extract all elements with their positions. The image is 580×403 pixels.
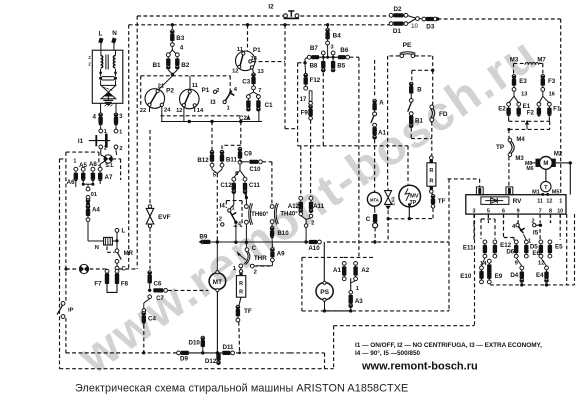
- svg-text:D3: D3: [426, 23, 435, 30]
- svg-text:C10: C10: [249, 167, 261, 173]
- svg-text:PS: PS: [320, 289, 329, 296]
- svg-text:8: 8: [549, 208, 552, 214]
- svg-text:E11: E11: [463, 244, 474, 251]
- svg-text:EVF: EVF: [158, 214, 171, 221]
- svg-text:2: 2: [88, 61, 91, 66]
- svg-text:4: 4: [92, 113, 96, 120]
- svg-text:B4: B4: [333, 32, 342, 39]
- svg-text:2: 2: [104, 146, 107, 152]
- svg-text:I3: I3: [210, 99, 216, 106]
- svg-text:F1: F1: [553, 106, 561, 113]
- svg-text:TH60°: TH60°: [251, 211, 269, 218]
- svg-text:2: 2: [219, 216, 222, 222]
- svg-text:P2: P2: [166, 88, 174, 95]
- svg-text:TF: TF: [438, 198, 446, 205]
- svg-text:Электрическая схема стиральной: Электрическая схема стиральной машины AR…: [75, 383, 408, 395]
- svg-text:C4: C4: [148, 316, 156, 323]
- svg-text:3: 3: [330, 45, 334, 51]
- svg-text:A: A: [379, 100, 384, 107]
- svg-text:A4: A4: [92, 207, 100, 214]
- svg-text:13: 13: [521, 91, 527, 97]
- svg-text:C9: C9: [244, 151, 252, 158]
- svg-text:C1: C1: [265, 102, 273, 109]
- svg-text:10: 10: [411, 24, 418, 30]
- svg-text:M4: M4: [516, 137, 525, 143]
- svg-text:C2: C2: [239, 115, 247, 122]
- svg-text:4: 4: [512, 224, 516, 230]
- svg-text:RV: RV: [513, 198, 522, 205]
- svg-text:M3: M3: [515, 156, 524, 162]
- svg-text:EVA: EVA: [391, 196, 396, 206]
- svg-text:5: 5: [213, 172, 217, 178]
- svg-text:T: T: [544, 185, 548, 191]
- svg-text:A7: A7: [105, 174, 113, 181]
- svg-text:C3: C3: [242, 79, 250, 86]
- svg-text:F7: F7: [94, 280, 102, 287]
- svg-text:F3: F3: [548, 78, 556, 85]
- svg-text:D12: D12: [205, 358, 217, 365]
- svg-text:2: 2: [88, 55, 91, 60]
- svg-text:4: 4: [180, 45, 184, 51]
- svg-text:MV: MV: [410, 194, 419, 200]
- svg-text:R: R: [239, 290, 243, 296]
- svg-text:F8: F8: [121, 280, 129, 287]
- svg-text:10: 10: [557, 208, 563, 214]
- svg-text:M2: M2: [554, 152, 563, 158]
- svg-text:A6: A6: [67, 179, 75, 186]
- svg-text:I1: I1: [78, 138, 84, 145]
- svg-text:D4: D4: [510, 272, 518, 279]
- svg-text:M6: M6: [526, 166, 533, 172]
- svg-text:2: 2: [119, 146, 122, 152]
- svg-text:M: M: [543, 161, 548, 167]
- svg-text:12: 12: [546, 199, 552, 205]
- svg-text:F9: F9: [301, 110, 309, 117]
- svg-text:N: N: [112, 30, 117, 37]
- svg-text:A9: A9: [277, 251, 285, 258]
- svg-text:A1: A1: [378, 129, 386, 136]
- svg-text:R: R: [239, 281, 243, 287]
- svg-text:3: 3: [119, 113, 123, 120]
- svg-text:R: R: [429, 168, 433, 174]
- svg-text:A10: A10: [308, 245, 320, 252]
- svg-text:1: 1: [559, 198, 562, 204]
- svg-text:12: 12: [176, 108, 182, 114]
- svg-text:13: 13: [257, 69, 263, 75]
- svg-text:9: 9: [515, 261, 519, 267]
- svg-text:2: 2: [254, 270, 257, 276]
- svg-text:TF: TF: [244, 308, 252, 315]
- svg-text:16: 16: [549, 91, 555, 97]
- svg-text:3: 3: [473, 208, 476, 214]
- svg-text:E5: E5: [555, 244, 563, 251]
- svg-text:24: 24: [164, 107, 171, 113]
- svg-text:A1: A1: [333, 267, 341, 274]
- svg-text:M3: M3: [510, 58, 519, 64]
- svg-text:B3: B3: [176, 35, 185, 42]
- svg-text:IP: IP: [68, 308, 74, 314]
- svg-text:7: 7: [258, 88, 261, 94]
- svg-text:L: L: [99, 30, 103, 37]
- svg-text:M7: M7: [537, 58, 546, 64]
- svg-text:www.remont-bosch.ru: www.remont-bosch.ru: [361, 361, 478, 373]
- svg-text:I5: I5: [533, 230, 539, 237]
- svg-text:6: 6: [502, 208, 505, 214]
- svg-text:D6: D6: [506, 248, 514, 255]
- svg-text:D2: D2: [393, 6, 402, 13]
- svg-text:14: 14: [197, 108, 204, 114]
- svg-text:M1: M1: [532, 189, 540, 195]
- svg-text:B8: B8: [309, 63, 317, 70]
- svg-text:C7: C7: [156, 296, 164, 302]
- svg-text:A3: A3: [355, 298, 363, 305]
- svg-text:TP: TP: [496, 144, 504, 151]
- svg-text:12: 12: [232, 68, 238, 74]
- svg-text:9: 9: [517, 208, 520, 214]
- svg-text:B2: B2: [181, 62, 190, 69]
- svg-text:D1: D1: [393, 28, 402, 35]
- svg-text:E9: E9: [495, 273, 503, 280]
- svg-text:C: C: [366, 216, 371, 223]
- svg-text:17: 17: [300, 97, 307, 103]
- svg-text:I1 — ON/OFF, I2 — NO CENTRIFUG: I1 — ON/OFF, I2 — NO CENTRIFUGA, I3 — EX…: [355, 342, 542, 349]
- svg-text:01: 01: [91, 192, 98, 198]
- svg-text:A11: A11: [313, 203, 325, 210]
- svg-text:THR: THR: [254, 255, 267, 262]
- svg-text:C6: C6: [154, 280, 162, 287]
- svg-text:TH40°: TH40°: [280, 210, 298, 217]
- svg-text:1: 1: [119, 130, 122, 136]
- svg-text:22: 22: [140, 108, 146, 114]
- svg-text:L: L: [121, 229, 125, 235]
- svg-text:2: 2: [311, 220, 314, 226]
- svg-text:B7: B7: [310, 45, 319, 52]
- svg-text:I4 — 90°, I5 —500/850: I4 — 90°, I5 —500/850: [355, 349, 421, 357]
- svg-text:P1: P1: [253, 47, 261, 54]
- svg-text:I4: I4: [220, 203, 226, 210]
- svg-text:A2: A2: [361, 267, 369, 274]
- svg-text:S.L: S.L: [105, 163, 114, 169]
- svg-text:7: 7: [539, 208, 542, 214]
- svg-text:B9: B9: [199, 234, 208, 241]
- svg-text:F12: F12: [310, 77, 321, 84]
- svg-text:C: C: [252, 246, 257, 252]
- svg-text:21: 21: [158, 83, 165, 89]
- svg-text:E4: E4: [536, 272, 544, 279]
- svg-text:I2: I2: [268, 4, 274, 11]
- svg-text:A12: A12: [288, 203, 300, 210]
- svg-text:E10: E10: [460, 273, 472, 280]
- svg-text:PE: PE: [403, 42, 412, 49]
- svg-text:MTA: MTA: [370, 197, 379, 202]
- svg-text:4: 4: [234, 87, 238, 93]
- svg-text:FD: FD: [439, 111, 448, 118]
- svg-text:B10: B10: [277, 230, 289, 237]
- svg-text:5: 5: [487, 208, 490, 214]
- svg-text:B11: B11: [226, 157, 238, 164]
- svg-text:F2: F2: [527, 110, 535, 117]
- svg-text:C12: C12: [220, 182, 232, 189]
- svg-text:E3: E3: [519, 78, 527, 85]
- svg-text:1: 1: [73, 159, 76, 165]
- svg-text:B1: B1: [152, 62, 161, 69]
- svg-text:P1: P1: [201, 87, 209, 94]
- svg-text:R: R: [429, 179, 433, 185]
- svg-text:11: 11: [192, 83, 199, 89]
- svg-text:M5: M5: [552, 189, 560, 195]
- svg-text:D10: D10: [189, 340, 201, 347]
- svg-text:C11: C11: [249, 182, 261, 189]
- svg-text:D9: D9: [180, 356, 188, 363]
- svg-text:E2: E2: [498, 105, 506, 112]
- svg-text:11: 11: [537, 198, 543, 204]
- svg-text:1: 1: [233, 266, 237, 272]
- svg-text:D11: D11: [222, 344, 234, 351]
- svg-text:B12: B12: [197, 157, 209, 164]
- svg-text:1: 1: [356, 286, 360, 292]
- svg-text:B: B: [417, 86, 422, 93]
- svg-text:B5: B5: [337, 63, 345, 70]
- svg-text:B1: B1: [415, 118, 423, 125]
- svg-text:MT: MT: [213, 279, 222, 286]
- svg-text:B6: B6: [340, 47, 349, 54]
- svg-text:N: N: [95, 245, 99, 251]
- svg-text:1: 1: [227, 106, 230, 112]
